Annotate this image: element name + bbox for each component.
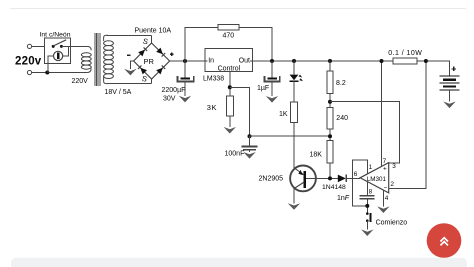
svg-text:1nF: 1nF [337, 195, 350, 202]
svg-text:8: 8 [369, 189, 373, 196]
resistor R3K [226, 96, 233, 116]
svg-text:18K: 18K [310, 151, 323, 158]
wire C2 up [271, 61, 273, 77]
wire 18K down [329, 163, 331, 178]
svg-text:LM338: LM338 [203, 75, 224, 82]
capacitor C3 100nF [242, 147, 258, 150]
ground battery [443, 102, 455, 109]
ground S2 [361, 229, 373, 236]
wire control to sense [230, 87, 250, 136]
svg-text:−: − [384, 185, 388, 192]
wire C1 up [184, 61, 186, 77]
resistor R0.1 10W [393, 58, 417, 64]
wire R470 loop right [239, 27, 272, 61]
neon lamp wiring [48, 46, 68, 72]
terminal N [27, 70, 31, 74]
svg-text:3: 3 [392, 163, 396, 170]
svg-text:Control: Control [218, 65, 241, 72]
wire LED up [293, 61, 295, 74]
bridge diode D3 [140, 68, 147, 75]
wire secondary top to bridge [104, 35, 108, 41]
LM338 pin stubs [205, 60, 253, 62]
wire battery to ground [449, 90, 451, 102]
wire R470 loop left [185, 27, 218, 61]
ground C2 [266, 96, 278, 103]
svg-text:PR: PR [144, 57, 155, 66]
svg-text:2: 2 [390, 181, 394, 188]
wire C4 to node [366, 200, 368, 213]
node divider [328, 100, 332, 104]
bridge diode D1 [138, 50, 145, 57]
capacitor C1 2200uF [177, 76, 193, 81]
wire C2 down [271, 81, 273, 96]
node control [228, 85, 232, 89]
svg-text:30V: 30V [163, 96, 176, 103]
wire switch to transformer [61, 45, 87, 47]
resistor R18K [327, 141, 333, 164]
node sense rail right [328, 134, 332, 138]
svg-text:7: 7 [383, 158, 387, 165]
switch S1 contacts [52, 45, 63, 48]
wire pin2 feedback [389, 61, 426, 188]
neon lamp NE1 [54, 51, 63, 60]
ground Q1 [288, 203, 300, 210]
transformer T1 core [95, 33, 100, 86]
wire LM338 control [229, 72, 231, 96]
resistor R1K [291, 102, 298, 123]
ground C3 [243, 152, 255, 159]
diode D6 1N4148 [338, 175, 346, 183]
wire pin4 down [382, 190, 384, 206]
wire 8.2 to 240 [329, 94, 331, 108]
svg-text:240: 240 [336, 115, 348, 122]
wire pin8 to C4 [366, 182, 368, 195]
op-amp U2 LM301 body [360, 163, 389, 193]
label minus [127, 54, 131, 56]
wire C3 down [249, 136, 251, 146]
bridge diode D2 [156, 48, 163, 55]
bridge diode D2 bar [162, 53, 166, 57]
node C1/R470 [183, 59, 187, 63]
wire pin1 compensation loop [353, 160, 368, 206]
top hairline [10, 8, 466, 10]
label battery plus [452, 67, 456, 71]
switch S1 lever [53, 40, 66, 46]
ground R3K [224, 127, 236, 134]
bridge diode D3 bar [138, 65, 142, 69]
transformer T1 secondary [104, 41, 114, 79]
wire 8.2 up [329, 61, 331, 71]
wire Q1 collector to ground [293, 189, 295, 204]
svg-text:Int c/Neón: Int c/Neón [40, 31, 71, 38]
resistor R470 [218, 25, 239, 30]
bridge diode D4 bar [162, 65, 166, 69]
svg-text:1K: 1K [279, 111, 288, 118]
bridge diode D1 bar [144, 47, 148, 51]
wire sense rail [250, 135, 331, 137]
terminal L [27, 44, 31, 48]
bridge rectifier PR body [134, 43, 170, 79]
svg-text:Puente 10A: Puente 10A [135, 28, 172, 35]
svg-text:+: + [383, 165, 387, 172]
capacitor C4 1nF [359, 196, 374, 199]
scroll-to-top button [427, 223, 462, 258]
wire C1 down [184, 81, 186, 96]
wire L to switch [32, 45, 45, 47]
switch S1 box [45, 38, 71, 63]
capacitor C2 1uF [264, 76, 279, 81]
node base junction [328, 176, 332, 180]
wire R1K to Q1 emitter [293, 123, 295, 168]
svg-text:8.2: 8.2 [336, 80, 346, 87]
wire DC rail left [170, 60, 205, 62]
svg-text:Comienzo: Comienzo [376, 219, 408, 226]
wire secondary bottom to bridge [104, 76, 108, 84]
node C2 [270, 59, 274, 63]
svg-text:Out: Out [239, 57, 250, 64]
node 8.2 top [328, 59, 332, 63]
wire Q1 base [316, 177, 338, 179]
svg-text:1µF: 1µF [257, 85, 269, 92]
svg-text:1: 1 [369, 164, 373, 171]
label plus bridge [170, 52, 174, 56]
wire DC rail right [253, 61, 450, 76]
node pin2 rail [424, 59, 428, 63]
svg-text:In: In [208, 57, 214, 64]
ground bridge [124, 69, 136, 76]
battery B1 [440, 76, 460, 90]
svg-text:18V / 5A: 18V / 5A [105, 89, 132, 96]
wire N rail [32, 72, 88, 74]
bridge diode D4 [156, 68, 163, 75]
node N junction [45, 71, 49, 75]
LED D5 arrows [299, 75, 304, 82]
transformer T1 primary [81, 53, 91, 69]
svg-text:220V: 220V [72, 78, 89, 85]
ground C1 [179, 96, 191, 103]
svg-text:2N2905: 2N2905 [259, 176, 284, 183]
wire divider to pin3 [330, 102, 400, 164]
svg-text:220v: 220v [15, 56, 42, 68]
svg-text:6: 6 [354, 171, 358, 178]
node LED [292, 59, 296, 63]
svg-text:1N4148: 1N4148 [322, 184, 346, 191]
node sense rail left [248, 134, 252, 138]
regulator U1 LM338 box [205, 49, 253, 72]
footer band [11, 258, 467, 267]
wire D6 to opamp [346, 177, 360, 179]
transistor Q1 2N2905 [290, 166, 316, 192]
svg-text:0.1 / 10W: 0.1 / 10W [388, 50, 422, 57]
svg-text:2200µF: 2200µF [162, 87, 186, 94]
LED D5 [290, 75, 299, 82]
wire C3 to ground [249, 151, 251, 153]
svg-text:470: 470 [223, 33, 235, 40]
svg-text:4: 4 [385, 195, 389, 202]
ground pin4 [377, 206, 389, 213]
wire R3K down [229, 116, 231, 127]
wire S2 to ground [366, 221, 368, 230]
wire 240 down [329, 129, 331, 140]
node pin7 rail [380, 59, 384, 63]
svg-text:LM301: LM301 [367, 176, 387, 183]
wire pin7 supply [381, 61, 383, 167]
wire bridge minus to ground [130, 61, 133, 69]
wire LED to R1K [293, 81, 295, 102]
node comp junction [365, 204, 369, 208]
resistor R240 [327, 108, 333, 130]
resistor R8.2 [327, 71, 333, 93]
svg-text:100nF: 100nF [225, 151, 245, 158]
svg-text:3K: 3K [207, 103, 217, 112]
switch S2 comienzo [366, 212, 372, 222]
